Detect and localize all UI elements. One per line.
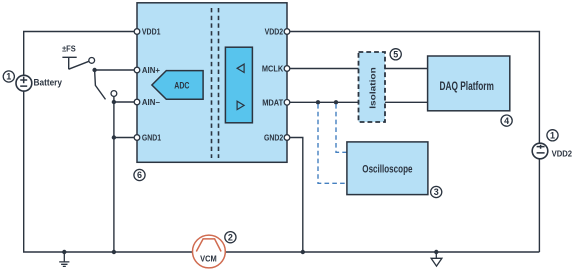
- svg-text:Battery: Battery: [34, 77, 63, 87]
- ground GND right (triangle): [431, 250, 442, 266]
- wire AIN- down to GND1 and rail: [113, 102, 115, 252]
- wire MDAT to isolation: [290, 101, 359, 103]
- svg-text:3: 3: [434, 187, 439, 197]
- pin AIN-: [134, 99, 140, 105]
- pin GND2: [284, 135, 290, 141]
- svg-text:AIN+: AIN+: [142, 66, 160, 75]
- svg-text:6: 6: [137, 170, 142, 180]
- svg-text:ADC: ADC: [174, 81, 190, 91]
- ADC core block: [152, 71, 203, 100]
- switch S1 lower contact: [111, 91, 117, 97]
- pin AIN+: [134, 67, 140, 73]
- oscilloscope block: [347, 142, 428, 195]
- callout 3 (oscilloscope): [431, 186, 442, 197]
- wire AIN+: [95, 69, 135, 71]
- node MDAT tap B: [334, 100, 338, 104]
- battery V1: [16, 75, 32, 91]
- svg-text:2: 2: [228, 232, 233, 242]
- pin MDAT: [284, 100, 290, 106]
- switch S1 upper contact: [89, 58, 95, 64]
- node rail junction AIN-/GND1: [112, 250, 116, 254]
- callout 1 (battery): [3, 71, 14, 82]
- callout 5 (isolation): [390, 49, 401, 60]
- wire GND2 to rail: [290, 138, 303, 253]
- svg-text:GND1: GND1: [142, 134, 162, 143]
- svg-text:1: 1: [550, 131, 555, 141]
- node MDAT tap A: [316, 100, 320, 104]
- node AIN- junction: [112, 100, 116, 104]
- node AIN+ junction: [92, 68, 96, 72]
- svg-text:VDD2: VDD2: [552, 148, 573, 158]
- svg-text:MCLK: MCLK: [262, 65, 284, 74]
- DAQ platform block: [428, 56, 510, 111]
- svg-text:4: 4: [504, 116, 509, 126]
- node rail junction GND2: [301, 250, 305, 254]
- ground GND left: [59, 250, 69, 267]
- pin GND1: [134, 135, 140, 141]
- callout 4 (DAQ): [501, 115, 512, 126]
- wire bottom rail right of VCM: [226, 251, 540, 253]
- svg-text:DAQ Platform: DAQ Platform: [439, 80, 494, 93]
- svg-text:MDAT: MDAT: [262, 99, 283, 108]
- wire lower contact to AIN-: [113, 96, 115, 102]
- ADC IC U1 body: [137, 3, 287, 163]
- wire battery+ to VDD1: [24, 32, 135, 76]
- pin VDD1: [134, 29, 140, 35]
- VCM source V2: [193, 235, 226, 268]
- wire AIN-: [114, 101, 134, 103]
- callout 2 (VCM): [225, 232, 236, 243]
- supply VDD2 source: [532, 143, 548, 159]
- callout 1 (VDD2 supply): [547, 130, 558, 141]
- wire VDD2 pin to supply: [290, 32, 540, 144]
- probe wire MDAT tap A to oscilloscope (dashed): [318, 104, 347, 183]
- svg-text:Isolation: Isolation: [368, 67, 378, 109]
- node GND1 junction: [112, 135, 116, 139]
- pin MCLK: [284, 66, 290, 72]
- svg-text:VCM: VCM: [200, 254, 217, 264]
- svg-text:AIN−: AIN−: [142, 98, 160, 107]
- svg-text:1: 1: [6, 72, 11, 82]
- digital interface block: [225, 47, 252, 123]
- wire MDAT isolation to DAQ: [385, 101, 428, 103]
- isolation barrier dashed lines inside U1: [212, 8, 219, 158]
- switch S1 lower lever: [95, 70, 106, 99]
- pin VDD2: [284, 29, 290, 35]
- isolation block: [359, 52, 386, 122]
- callout 6 (ADC IC): [134, 169, 145, 180]
- switch S1 actuator T-bar: [62, 57, 76, 69]
- svg-text:±FS: ±FS: [62, 44, 76, 53]
- switch S1 upper lever: [69, 61, 89, 69]
- wire MCLK isolation to DAQ: [385, 68, 428, 70]
- wire VDD2 supply to rail: [538, 159, 540, 252]
- svg-text:5: 5: [393, 50, 398, 60]
- wire battery- to bottom rail: [24, 91, 193, 252]
- probe wire MDAT tap B to oscilloscope (dashed): [336, 104, 347, 152]
- wire MCLK to isolation: [290, 68, 359, 70]
- svg-text:VDD2: VDD2: [265, 28, 284, 37]
- svg-text:GND2: GND2: [264, 134, 284, 143]
- wire GND1: [114, 137, 134, 139]
- svg-text:Oscilloscope: Oscilloscope: [362, 163, 412, 175]
- svg-text:VDD1: VDD1: [142, 28, 161, 37]
